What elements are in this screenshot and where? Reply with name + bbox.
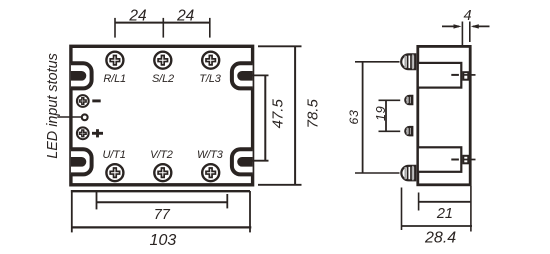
screw terminal T/L3 — [202, 52, 219, 69]
svg-text:103: 103 — [150, 232, 177, 249]
svg-text:28.4: 28.4 — [424, 229, 456, 246]
plus sign — [92, 129, 103, 137]
dimension 24-24 line — [115, 22, 210, 24]
dimension 4 extension lines — [462, 22, 469, 46]
svg-text:4: 4 — [463, 8, 471, 24]
dimension 21 line — [419, 201, 471, 203]
svg-text:19: 19 — [373, 106, 388, 121]
side view body outline — [418, 46, 470, 184]
svg-text:S/L2: S/L2 — [152, 73, 174, 85]
dimension 63 line — [362, 62, 364, 173]
side terminal block top — [418, 63, 476, 88]
dimension 78.5 line — [294, 46, 296, 185]
power terminal bullet top — [401, 54, 415, 69]
svg-text:78.5: 78.5 — [305, 99, 322, 129]
svg-text:V/T2: V/T2 — [150, 149, 173, 161]
svg-text:LED input stotus: LED input stotus — [45, 53, 61, 159]
svg-text:W/T3: W/T3 — [197, 149, 224, 161]
dimension 19 line — [385, 100, 387, 131]
dimension 28.4 line — [402, 225, 473, 227]
mounting slot bottom-left — [71, 149, 92, 174]
power terminal bullet bottom — [401, 166, 415, 181]
dimension 24-24 ticks — [115, 18, 210, 38]
dimension 47.5 line — [264, 75, 266, 160]
dimension 47.5 extension lines — [247, 75, 269, 160]
dimension 103 line — [72, 226, 252, 228]
minus sign — [92, 99, 100, 102]
front view body outline — [71, 46, 253, 185]
dimension 21 ticks — [419, 186, 471, 232]
dimension 4 arrows — [442, 25, 490, 27]
svg-text:63: 63 — [347, 110, 361, 125]
svg-text:77: 77 — [154, 207, 171, 223]
control terminal bullet lower — [405, 127, 412, 135]
dimension 19 extension lines — [379, 100, 401, 131]
screw terminal S/L2 — [154, 52, 171, 69]
control terminal bullet upper — [405, 96, 412, 105]
dimension 28.4 extension line — [401, 188, 403, 231]
screw terminal W/T3 — [202, 164, 219, 181]
screw terminal R/L1 — [106, 52, 123, 69]
svg-text:21: 21 — [436, 206, 453, 222]
svg-text:T/L3: T/L3 — [199, 73, 221, 85]
svg-text:24: 24 — [176, 7, 195, 24]
screw terminal U/T1 — [106, 164, 123, 181]
side terminal block bottom — [418, 147, 476, 172]
base plate bottom line — [71, 190, 250, 192]
svg-text:24: 24 — [128, 7, 147, 24]
svg-text:U/T1: U/T1 — [102, 149, 125, 161]
dimension 78.5 extension lines — [258, 46, 302, 185]
svg-text:R/L1: R/L1 — [103, 73, 126, 85]
LED pointer line — [57, 116, 81, 118]
mounting slot top-right — [232, 63, 253, 88]
screw terminal V/T2 — [154, 164, 171, 181]
dimension 77 line — [97, 201, 228, 203]
dimension 103 extension lines — [72, 190, 250, 232]
dimension 63 extension lines — [355, 62, 400, 173]
LED indicator dot — [82, 114, 88, 120]
mounting slot bottom-right — [232, 149, 253, 174]
control screw plus — [77, 127, 89, 139]
control screw minus — [77, 95, 89, 107]
mounting slot top-left — [71, 63, 92, 88]
dimension 77 ticks — [97, 192, 228, 210]
svg-text:47.5: 47.5 — [269, 99, 286, 129]
